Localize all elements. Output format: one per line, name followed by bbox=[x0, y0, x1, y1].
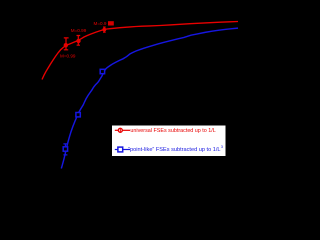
red errorbar E3 bbox=[103, 27, 106, 32]
red errorbar E2 bbox=[77, 36, 81, 46]
blue marker M3 bbox=[100, 69, 104, 73]
blue marker M2 bbox=[76, 113, 80, 117]
blue curve bbox=[61, 28, 238, 168]
legend red line bbox=[115, 129, 130, 131]
legend red marker bbox=[118, 128, 122, 132]
svg-text:M=0.9: M=0.9 bbox=[94, 21, 107, 26]
legend blue line bbox=[115, 149, 130, 151]
svg-text:M=0.99: M=0.99 bbox=[71, 28, 87, 33]
red errorbar E1 bbox=[64, 38, 69, 50]
red marker M3 bbox=[102, 28, 106, 32]
red curve bbox=[42, 22, 238, 80]
blue errorbar E1 bbox=[63, 144, 67, 155]
legend blue marker bbox=[118, 147, 123, 152]
svg-text:universal FSEs subtracted up t: universal FSEs subtracted up to 1/L bbox=[130, 128, 215, 134]
legend box bbox=[112, 125, 227, 157]
red marker M1 bbox=[64, 43, 68, 47]
red square annotation bbox=[108, 21, 114, 25]
red marker M2 bbox=[76, 39, 80, 43]
blue marker M1 bbox=[63, 147, 67, 151]
svg-text:M=0.99: M=0.99 bbox=[60, 53, 76, 58]
svg-text:“point-like” FSEs subtracted u: “point-like” FSEs subtracted up to 1/L bbox=[128, 147, 220, 153]
